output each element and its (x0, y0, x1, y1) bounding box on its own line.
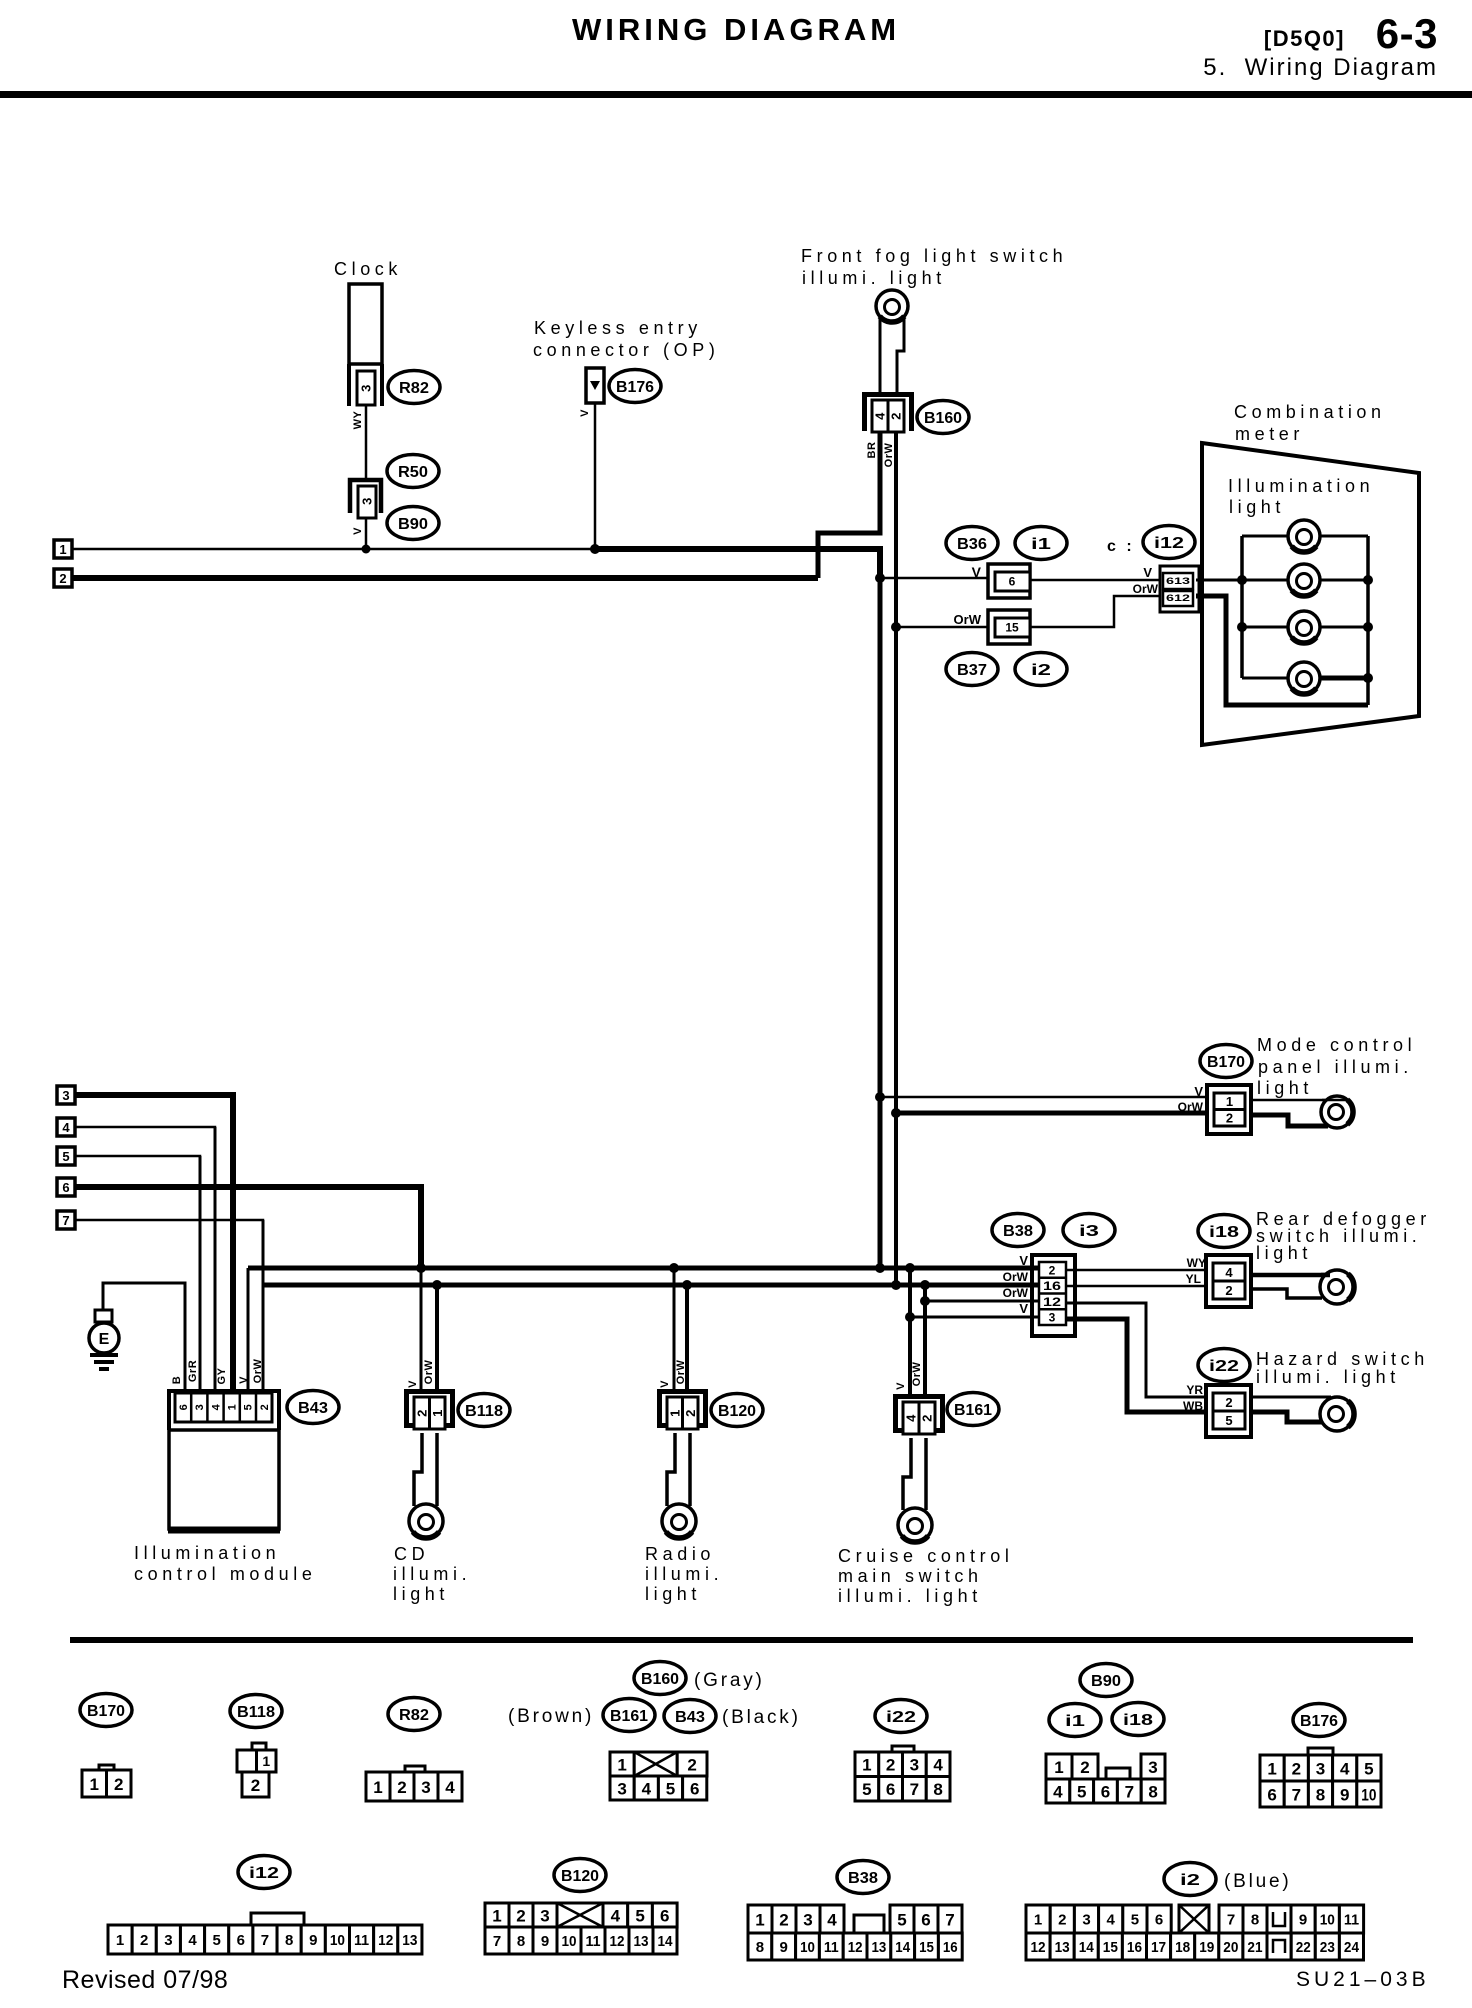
svg-text:4: 4 (1053, 1782, 1063, 1801)
svg-text:i12: i12 (1154, 535, 1184, 552)
junction box 6 (B36/i1) (988, 564, 1030, 598)
svg-text:5: 5 (243, 1404, 255, 1411)
separator rule (70, 1637, 1413, 1643)
connector oval R50 (387, 455, 439, 488)
svg-text:8: 8 (517, 1933, 525, 1950)
svg-text:2: 2 (920, 1414, 935, 1422)
meter connector i12 pins (1160, 566, 1199, 612)
svg-text:11: 11 (586, 1933, 601, 1950)
svg-text:6: 6 (178, 1404, 190, 1411)
pinout B170 grid (82, 1770, 107, 1797)
svg-text:2: 2 (886, 1756, 895, 1775)
svg-text:5: 5 (666, 1779, 675, 1798)
svg-text:(Gray): (Gray) (694, 1670, 765, 1691)
wire OrW to B120 (685, 1285, 689, 1394)
svg-text:8: 8 (285, 1932, 293, 1949)
pinout B176 tab (1308, 1748, 1333, 1756)
pinout oval B118 (230, 1695, 282, 1728)
svg-text:1: 1 (116, 1932, 124, 1949)
svg-text:[D5Q0]: [D5Q0] (1264, 26, 1345, 51)
svg-text:4: 4 (62, 1120, 70, 1135)
pinout oval B160 (634, 1662, 686, 1695)
svg-text:2: 2 (114, 1775, 123, 1794)
svg-text:i22: i22 (1209, 1358, 1239, 1375)
svg-text:1: 1 (59, 542, 66, 557)
wire terminal7 to module (75, 1220, 263, 1391)
wire terminal3 to module (75, 1095, 233, 1391)
svg-text:5: 5 (213, 1932, 221, 1949)
svg-text:7: 7 (1292, 1785, 1301, 1804)
svg-text:6: 6 (921, 1910, 930, 1929)
svg-text:13: 13 (1055, 1939, 1070, 1956)
pinout i12 grid (108, 1925, 132, 1954)
svg-text:2: 2 (683, 1409, 698, 1417)
svg-text:6: 6 (1155, 1912, 1163, 1929)
wire net1 thin (72, 548, 596, 551)
svg-text:12: 12 (1031, 1939, 1046, 1956)
svg-text:9: 9 (1340, 1785, 1349, 1804)
svg-text:15: 15 (919, 1939, 934, 1956)
wire BR riser (818, 431, 880, 578)
svg-text:7: 7 (62, 1213, 69, 1228)
svg-text:14: 14 (895, 1939, 910, 1956)
svg-text:illumi.: illumi. (393, 1564, 471, 1584)
clock connector R82 outer (349, 364, 382, 406)
svg-text:B161: B161 (954, 1402, 992, 1419)
svg-text:OrW: OrW (423, 1360, 435, 1385)
svg-text:1: 1 (1034, 1912, 1042, 1929)
wire B38 pin4 to hazard WB (1066, 1319, 1215, 1412)
svg-text:6: 6 (1009, 574, 1016, 588)
connector oval i2 (1015, 653, 1067, 686)
pinout B38 grid bottom (748, 1933, 772, 1960)
connector B38 pins (1039, 1262, 1066, 1325)
wire YL B38 to i18 (1066, 1285, 1215, 1288)
junction V to B170 (875, 1092, 885, 1102)
ground symbol (95, 1310, 112, 1322)
svg-text:WIRING DIAGRAM: WIRING DIAGRAM (572, 12, 900, 47)
svg-text:B160: B160 (641, 1671, 679, 1688)
svg-text:3: 3 (1148, 1758, 1157, 1777)
svg-text:i12: i12 (249, 1865, 279, 1882)
pinout i22 tab (892, 1746, 914, 1754)
svg-text:B38: B38 (848, 1870, 878, 1887)
pinout B176 grid (1260, 1755, 1284, 1781)
connector B161 (896, 1397, 943, 1434)
svg-text:OrW: OrW (1133, 582, 1159, 596)
svg-text:B43: B43 (298, 1400, 328, 1417)
hazard lamp wires (1251, 1396, 1330, 1399)
connector R50/B90 outer (350, 480, 381, 513)
svg-text:7: 7 (945, 1910, 954, 1929)
pinout B118 tab (252, 1743, 266, 1752)
svg-text:16: 16 (1043, 1279, 1061, 1293)
bus junction dots V (416, 1263, 426, 1273)
svg-text:8: 8 (933, 1780, 942, 1799)
svg-text:1: 1 (90, 1775, 99, 1794)
svg-text:illumi.: illumi. (645, 1564, 723, 1584)
svg-text:i1: i1 (1065, 1713, 1085, 1730)
svg-text:light: light (1229, 497, 1285, 517)
connector oval B170 (1200, 1045, 1252, 1078)
svg-text:i18: i18 (1123, 1712, 1153, 1729)
terminal 2 (54, 569, 72, 587)
terminal 7 (57, 1211, 75, 1229)
hazard switch lamp (1320, 1397, 1354, 1431)
svg-text:6: 6 (690, 1779, 699, 1798)
pinout i2 grid bottom (1026, 1933, 1050, 1960)
svg-text:9: 9 (309, 1932, 317, 1949)
terminal 6 (57, 1178, 75, 1196)
cruise lamp leads (903, 1438, 911, 1510)
svg-text:light: light (393, 1584, 449, 1604)
svg-text:meter: meter (1235, 424, 1304, 444)
radio illumi lamp (662, 1504, 696, 1538)
svg-text:2: 2 (1226, 1111, 1233, 1126)
svg-text:3: 3 (540, 1906, 549, 1925)
svg-text:BR: BR (866, 442, 878, 459)
svg-text:3: 3 (194, 1404, 206, 1411)
svg-text:3: 3 (62, 1088, 69, 1103)
svg-text:(Blue): (Blue) (1224, 1871, 1291, 1892)
svg-text:6: 6 (237, 1932, 245, 1949)
svg-text:24: 24 (1344, 1939, 1360, 1956)
svg-text:CD: CD (394, 1544, 429, 1564)
terminal 4 (57, 1118, 75, 1136)
svg-text:5: 5 (1225, 1413, 1232, 1428)
svg-text:2: 2 (414, 1409, 429, 1417)
svg-text:7: 7 (261, 1932, 269, 1949)
svg-text:B170: B170 (1207, 1054, 1245, 1071)
svg-text:2: 2 (779, 1910, 788, 1929)
svg-text:3: 3 (910, 1756, 919, 1775)
wire OrW to B38 pin 3 (925, 1300, 1042, 1303)
connector oval i18 (1198, 1215, 1250, 1248)
svg-text:B161: B161 (610, 1708, 648, 1725)
connector oval R82 (388, 371, 440, 404)
pinout i2 grid top (1026, 1905, 1050, 1933)
svg-text:2: 2 (1049, 1263, 1056, 1277)
svg-text:E: E (99, 1331, 110, 1348)
svg-text:2: 2 (59, 571, 66, 586)
pinout B120 grid top (485, 1903, 509, 1927)
connector oval i12 (1143, 526, 1195, 559)
connector oval B37 (946, 653, 998, 686)
rear defogger lamp wires (1251, 1273, 1330, 1278)
junction OrW to B38 pin3 (920, 1296, 930, 1306)
meter lamp bus right (1366, 536, 1370, 705)
svg-text:Illumination: Illumination (1228, 476, 1374, 496)
svg-text:18: 18 (1175, 1939, 1190, 1956)
svg-text:OrW: OrW (883, 443, 895, 468)
svg-text:1: 1 (262, 1753, 270, 1769)
svg-text:1: 1 (492, 1906, 501, 1925)
CD lamp leads (414, 1433, 422, 1506)
svg-text:15: 15 (1103, 1939, 1118, 1956)
svg-text:11: 11 (354, 1932, 369, 1949)
svg-text:i1: i1 (1031, 536, 1051, 553)
svg-text:Illumination: Illumination (134, 1543, 280, 1563)
connector B120 (660, 1392, 706, 1429)
wire bus V left end to module pin 5 (247, 1268, 250, 1391)
meter illumination lamp 2 (1288, 564, 1320, 596)
svg-text:Cruise control: Cruise control (838, 1546, 1013, 1566)
svg-text:light: light (1257, 1078, 1313, 1098)
connector oval B43 (287, 1391, 339, 1424)
svg-text:3: 3 (1316, 1759, 1325, 1778)
svg-text:6: 6 (886, 1780, 895, 1799)
connector oval i1 (1015, 527, 1067, 560)
wire WY clock to R50 (365, 406, 368, 478)
svg-text:4: 4 (904, 1414, 919, 1422)
svg-text:612: 612 (1166, 593, 1190, 603)
wire V B90 to bus1 (365, 518, 368, 549)
connector i22 (1206, 1385, 1251, 1437)
svg-text:B90: B90 (1091, 1673, 1121, 1690)
svg-text:B36: B36 (957, 536, 987, 553)
pinout i1/i18 grid (1046, 1754, 1072, 1779)
svg-text:8: 8 (1251, 1912, 1259, 1929)
svg-text:1: 1 (430, 1409, 445, 1417)
pinout R82 grid (366, 1772, 390, 1801)
connector oval i22 (1198, 1349, 1250, 1382)
svg-text:2: 2 (687, 1755, 696, 1774)
svg-text:OrW: OrW (252, 1359, 264, 1384)
cruise control lamp (898, 1508, 932, 1542)
illumination control module body (169, 1430, 279, 1529)
svg-text:light: light (645, 1584, 701, 1604)
wire V to junction 6 (884, 577, 990, 580)
svg-text:13: 13 (634, 1933, 649, 1950)
svg-text:21: 21 (1247, 1939, 1262, 1956)
bus junction dots OrW (432, 1280, 442, 1290)
svg-text:Mode control: Mode control (1257, 1035, 1416, 1055)
svg-text:B90: B90 (398, 516, 428, 533)
svg-text:SU21–03B: SU21–03B (1296, 1968, 1430, 1991)
svg-text:12: 12 (1043, 1295, 1061, 1309)
svg-text:4: 4 (933, 1756, 943, 1775)
svg-text:10: 10 (1361, 1785, 1376, 1804)
svg-text:3: 3 (421, 1778, 430, 1797)
svg-text:V: V (1019, 1301, 1028, 1316)
pinout B118 grid bottom (242, 1772, 269, 1797)
connector oval B160 (917, 401, 969, 434)
svg-text:1: 1 (373, 1778, 382, 1797)
clock body (349, 284, 382, 364)
svg-text:WB: WB (1183, 1399, 1203, 1413)
mode control lamp wires (1251, 1099, 1348, 1102)
junction box 15 (B37/i2) (988, 610, 1030, 644)
svg-text:4: 4 (1107, 1912, 1116, 1929)
svg-text:V: V (1194, 1084, 1203, 1099)
svg-text:illumi. light: illumi. light (802, 268, 946, 288)
svg-text:B120: B120 (718, 1403, 756, 1420)
junction V/net1 (875, 573, 885, 583)
junction V to B38 pin4 (905, 1312, 915, 1322)
svg-text:GY: GY (216, 1367, 228, 1384)
svg-text:4: 4 (827, 1910, 837, 1929)
svg-text:WY: WY (1187, 1256, 1206, 1270)
bus V horizontal (248, 1266, 1042, 1271)
svg-text:V: V (352, 527, 364, 535)
svg-text:11: 11 (1344, 1912, 1359, 1929)
wire OrW to junction 15 (896, 626, 990, 629)
connector B38 outer (1032, 1255, 1075, 1336)
svg-text:17: 17 (1151, 1939, 1166, 1956)
wire OrW to B161 (923, 1285, 927, 1399)
svg-text:4: 4 (1225, 1265, 1233, 1280)
svg-text:OrW: OrW (954, 612, 982, 627)
svg-text:YL: YL (1186, 1272, 1201, 1286)
svg-text:12: 12 (378, 1932, 393, 1949)
wire OrW main drop (894, 431, 898, 1285)
svg-text:10: 10 (330, 1932, 345, 1949)
wire WY B38 to i18 (1066, 1269, 1215, 1272)
svg-text:8: 8 (1148, 1782, 1157, 1801)
meter lamp row 1 wire (1242, 535, 1368, 538)
wire terminal4 to module (75, 1127, 215, 1391)
wire net2 BR thick (72, 575, 818, 581)
meter lamp row 3 wire (1242, 626, 1368, 629)
svg-text:4: 4 (445, 1778, 455, 1797)
svg-text:5: 5 (1364, 1759, 1373, 1778)
pinout B160/B161/B43 grid bottom (610, 1776, 634, 1800)
svg-text:9: 9 (780, 1939, 788, 1956)
meter OrW return wire (1196, 596, 1368, 705)
svg-text:control module: control module (134, 1564, 316, 1584)
pinout oval B38 (837, 1861, 889, 1894)
mode control panel illumi lamp (1321, 1096, 1353, 1128)
connector oval B38 (992, 1214, 1044, 1247)
radio lamp leads (667, 1433, 675, 1506)
pinout oval i18 (1112, 1703, 1164, 1736)
svg-text:B38: B38 (1003, 1223, 1033, 1240)
svg-text:B37: B37 (957, 662, 987, 679)
svg-text:V: V (1143, 565, 1152, 580)
fog light lamp (876, 290, 908, 322)
svg-text:1: 1 (617, 1755, 626, 1774)
svg-text:2: 2 (1080, 1758, 1089, 1777)
svg-text:Hazard switch: Hazard switch (1256, 1349, 1429, 1369)
svg-text:2: 2 (889, 412, 904, 420)
meter lamp row 4 wire (1242, 677, 1320, 680)
svg-text:1: 1 (862, 1756, 871, 1775)
svg-text:1: 1 (1267, 1759, 1276, 1778)
svg-text:15: 15 (1005, 620, 1019, 634)
wire terminal5 to module (75, 1156, 200, 1391)
pinout oval B90 (1080, 1664, 1132, 1697)
svg-text:5. Wiring Diagram: 5. Wiring Diagram (1203, 54, 1438, 81)
pinout oval i22 (875, 1700, 927, 1733)
svg-text:2: 2 (1292, 1759, 1301, 1778)
clock connector R82 pin 3 (357, 371, 375, 405)
svg-text:3: 3 (360, 497, 375, 505)
svg-text:Revised 07/98: Revised 07/98 (62, 1966, 228, 1994)
wire V to B170 (880, 1096, 1215, 1099)
svg-text:7: 7 (910, 1780, 919, 1799)
svg-text:6: 6 (1267, 1785, 1276, 1804)
connector oval B90 (387, 507, 439, 540)
svg-text:B170: B170 (87, 1703, 125, 1720)
svg-text:6: 6 (62, 1180, 69, 1195)
svg-text:OrW: OrW (911, 1362, 923, 1387)
svg-text:B176: B176 (1300, 1713, 1338, 1730)
svg-text:OrW: OrW (675, 1360, 687, 1385)
svg-text:V: V (238, 1376, 250, 1384)
svg-text:(Black): (Black) (722, 1707, 801, 1728)
meter junction dots (1237, 575, 1247, 585)
junction clock/net1 (362, 545, 371, 554)
wire terminal6 to bus V (75, 1187, 421, 1268)
CD illumi lamp (409, 1504, 443, 1538)
svg-text:14: 14 (658, 1933, 674, 1950)
connector oval B118 (458, 1394, 510, 1427)
svg-text:V: V (1019, 1253, 1028, 1268)
svg-text:19: 19 (1199, 1939, 1214, 1956)
svg-text:B43: B43 (675, 1709, 705, 1726)
connector i18 (1206, 1255, 1251, 1307)
pinout i12 tab (251, 1913, 304, 1925)
svg-text:OrW: OrW (1003, 1270, 1029, 1284)
svg-text:6: 6 (1101, 1782, 1110, 1801)
rear defogger lamp (1320, 1270, 1354, 1304)
wire V to B120 (673, 1268, 676, 1394)
wire V to B118 (420, 1268, 423, 1394)
svg-text:3: 3 (164, 1932, 172, 1949)
svg-text:2: 2 (1225, 1395, 1232, 1410)
svg-text:1: 1 (226, 1404, 238, 1411)
svg-text:(Brown): (Brown) (508, 1706, 594, 1727)
svg-text:8: 8 (756, 1939, 764, 1956)
connector oval i3 (1063, 1214, 1115, 1247)
pinout i22 grid (855, 1752, 879, 1777)
svg-text:10: 10 (1320, 1912, 1335, 1929)
pinout oval B161 (603, 1699, 655, 1732)
svg-text:V: V (579, 409, 591, 417)
svg-text:10: 10 (562, 1933, 577, 1950)
svg-text:13: 13 (402, 1932, 417, 1949)
svg-text:B120: B120 (561, 1868, 599, 1885)
svg-text:16: 16 (1127, 1939, 1142, 1956)
connector B160 (865, 395, 912, 432)
svg-text:Radio: Radio (645, 1544, 715, 1564)
svg-text:20: 20 (1223, 1939, 1238, 1956)
bus OrW horizontal (263, 1283, 1042, 1288)
svg-text:R82: R82 (399, 1707, 429, 1724)
svg-text:2: 2 (140, 1932, 148, 1949)
fog lamp leads (879, 318, 882, 394)
svg-text:7: 7 (493, 1933, 501, 1950)
svg-text:9: 9 (541, 1933, 549, 1950)
svg-text:14: 14 (1079, 1939, 1095, 1956)
svg-text:illumi. light: illumi. light (838, 1586, 982, 1606)
svg-text:c :: c : (1107, 538, 1135, 555)
svg-text:Combination: Combination (1234, 402, 1386, 422)
svg-text:B176: B176 (616, 379, 654, 396)
connector B43 pins (175, 1393, 272, 1422)
pinout oval B43 (664, 1700, 716, 1733)
svg-text:panel illumi.: panel illumi. (1258, 1057, 1413, 1077)
svg-text:4: 4 (210, 1403, 222, 1410)
connector B90 pin 3 (358, 486, 376, 518)
svg-text:OrW: OrW (1178, 1100, 1204, 1114)
svg-text:WY: WY (352, 410, 364, 429)
svg-text:5: 5 (62, 1149, 69, 1164)
svg-text:i22: i22 (886, 1709, 916, 1726)
wire ground feed (103, 1283, 185, 1391)
combination meter outline (1202, 443, 1419, 745)
svg-text:illumi. light: illumi. light (1256, 1367, 1400, 1387)
